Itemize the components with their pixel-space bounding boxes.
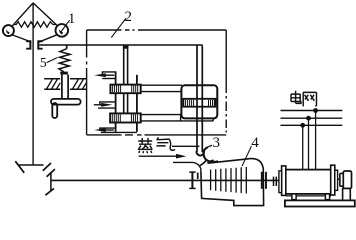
glyph wang	[303, 92, 316, 106]
steam label (hand drawn glyphs)	[138, 137, 175, 153]
spring 5	[59, 49, 70, 72]
power bus line 1	[281, 110, 343, 112]
flyball right (label 1)	[56, 24, 69, 37]
glyph qi	[156, 137, 169, 146]
label 4	[242, 135, 259, 166]
spring 5 hanger tick	[66, 45, 68, 49]
oil port middle (supply, arrow right)	[94, 102, 116, 108]
flyball governor spindle	[32, 3, 34, 165]
power piston rod	[197, 46, 202, 153]
oil port bottom (drain, arrow left)	[94, 128, 137, 132]
svg-text:4: 4	[251, 135, 259, 151]
oil pipe lower to cylinder	[141, 115, 214, 121]
machine base plate	[285, 200, 355, 206]
label 2	[111, 9, 132, 37]
power cylinder	[181, 85, 217, 118]
bell crank handle	[51, 99, 81, 118]
steam pipe lower wall and turbine inlet curve	[173, 162, 201, 171]
steam valve 3 flap	[200, 147, 214, 165]
oil pipe upper to cylinder	[141, 85, 182, 91]
exciter	[340, 171, 352, 201]
dash-dot box 2 top edge	[87, 29, 227, 31]
drive linkage slash left	[15, 161, 24, 173]
generator feet	[286, 194, 331, 200]
steam pipe upper wall	[172, 145, 199, 147]
governor lower arm left	[12, 35, 29, 42]
coupling turbine-right	[262, 172, 266, 189]
drive linkage vertical	[50, 173, 52, 191]
drive linkage horizontal upper	[19, 164, 44, 166]
glyph dian	[291, 91, 301, 104]
svg-text:1: 1	[68, 11, 76, 27]
dash-dot box 2 bottom edge	[87, 134, 227, 136]
drive linkage double slash	[43, 163, 55, 177]
gland hatched block right	[70, 79, 86, 90]
power bus line 3	[281, 124, 343, 126]
gland hatched block left	[44, 79, 60, 90]
steam valve 3 ball	[196, 151, 204, 155]
dash-dot box 2 left edge	[86, 30, 88, 135]
power bus line 2	[281, 117, 343, 119]
pilot valve body wall right	[136, 75, 138, 132]
governor spring between balls	[14, 22, 57, 27]
label 5	[40, 55, 57, 70]
coupling generator-side	[274, 177, 277, 186]
governor upper arm left	[12, 3, 33, 27]
main shaft	[51, 179, 282, 181]
damper rod cap	[60, 72, 68, 75]
glyph zheng	[138, 138, 152, 143]
drive linkage slash bottom	[45, 188, 54, 195]
sleeve bracket left	[26, 40, 31, 49]
grid label (hand drawn glyphs)	[291, 91, 317, 107]
generator phase wires	[303, 111, 316, 170]
label 3	[206, 135, 220, 151]
damper rod	[62, 75, 68, 99]
spool land lower	[110, 113, 141, 122]
generator left flange	[279, 166, 286, 196]
svg-text:3: 3	[213, 135, 221, 151]
sleeve bracket right	[37, 40, 42, 49]
spool land upper	[110, 85, 140, 94]
label 1	[61, 11, 76, 32]
turbine blades	[211, 167, 247, 194]
power piston	[183, 99, 215, 107]
generator right flange	[331, 165, 338, 195]
turbine 4 outline	[201, 159, 264, 206]
svg-text:2: 2	[124, 9, 132, 25]
turbine bearing symbol	[189, 172, 197, 189]
svg-text:5: 5	[40, 55, 47, 70]
flyball left	[3, 25, 14, 36]
dash-dot box 2 right edge	[225, 30, 227, 135]
steam flow arrow	[139, 154, 187, 159]
pilot valve spool rod	[123, 46, 128, 123]
governor lower arm right	[39, 35, 58, 43]
oil port top (drain, arrow left)	[94, 72, 116, 79]
bus junction dots	[300, 108, 318, 128]
exciter shaft stub	[338, 178, 341, 180]
pilot valve body wall left	[115, 72, 117, 132]
generator body	[285, 170, 332, 194]
governor upper arm right	[33, 3, 58, 26]
floating lever	[39, 44, 202, 46]
